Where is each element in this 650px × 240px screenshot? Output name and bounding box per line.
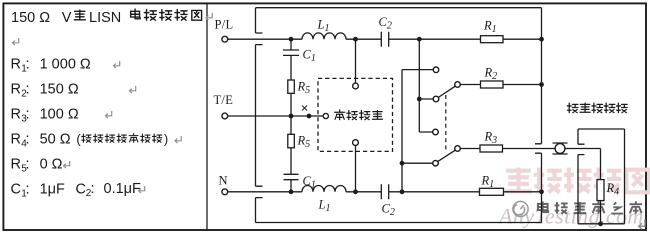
wire receiver input down to R4	[600, 149, 602, 180]
resistor R5 (top)	[288, 80, 310, 97]
EUT left terminal	[323, 113, 328, 118]
capacitor C1 (top)	[283, 48, 316, 65]
resistor R4	[597, 180, 619, 201]
svg-text:C1: C1	[303, 48, 316, 65]
inductor L1 (top)	[302, 17, 346, 39]
svg-text:R2: R2	[484, 66, 498, 83]
capacitor C2 (bottom)	[381, 184, 395, 218]
disconnect mark x on T/E link	[302, 106, 307, 111]
switch contact N lower	[433, 160, 439, 166]
EUT top terminal	[353, 83, 359, 89]
wire EUT bottom dropper	[355, 145, 357, 192]
word-wrap return mark bottom right	[639, 219, 645, 229]
wire connector into receiver	[565, 148, 600, 150]
svg-text:L1: L1	[317, 17, 330, 34]
measurement receiver label (测量接收机)	[567, 103, 627, 112]
wire R2 to enclosure wall	[503, 84, 542, 86]
switch blade lower	[438, 150, 456, 162]
wire R1 to enclosure wall	[503, 38, 542, 40]
switch pole lower	[455, 146, 461, 152]
switch contact P/L upper	[433, 96, 439, 102]
svg-text:P/L: P/L	[215, 18, 234, 32]
resistor R3	[480, 130, 503, 153]
wire R1 bottom to enclosure wall	[504, 191, 542, 193]
wire N switch riser	[402, 70, 433, 192]
wire R5 to C1 (bottom)	[290, 148, 292, 175]
node R2 at enclosure wall	[539, 82, 544, 87]
node on P/L rail at C1 chain	[289, 37, 294, 42]
node on P/L dropper	[417, 97, 422, 102]
wire C1 to N rail	[290, 180, 292, 192]
wire N rail left	[228, 191, 303, 193]
wire R5 chain below T/E	[290, 116, 292, 134]
wire N rail to R1 (bottom)	[389, 191, 480, 193]
legend panel divider	[206, 4, 208, 230]
watermark gray characters (电磁兼容之家)	[538, 201, 642, 213]
svg-text:R5: R5	[297, 134, 311, 151]
coax connector flanges	[553, 143, 568, 154]
svg-text:R2:150 Ω: R2:150 Ω	[11, 81, 79, 99]
wire P/L rail left	[228, 38, 303, 40]
wire EUT top dropper	[355, 39, 357, 83]
wire R3 through bushing to coax connector	[503, 148, 555, 150]
svg-text:C1:1μFC2:0.1μF: C1:1μFC2:0.1μF	[11, 181, 142, 199]
svg-text:R3:100 Ω: R3:100 Ω	[11, 106, 79, 124]
wire R4 to receiver chassis	[600, 201, 602, 224]
capacitor C1 (bottom)	[284, 174, 316, 191]
switch contact N upper	[433, 67, 439, 73]
svg-text:C2: C2	[379, 15, 392, 32]
LISN enclosure right wall with bushing gap at R3 feed-through	[535, 8, 542, 223]
svg-text:R5: R5	[297, 80, 311, 97]
wire P/L rail to R1	[389, 38, 481, 40]
LISN enclosure top wall	[256, 7, 542, 9]
watermark pink characters (嘉峪检测网)	[505, 168, 649, 193]
resistor R5 (bottom)	[288, 134, 310, 151]
svg-text:R3: R3	[484, 130, 498, 147]
wire pole to R2	[460, 84, 480, 86]
svg-text:L1: L1	[318, 198, 331, 215]
paragraph return marks	[206, 13, 212, 20]
node R4 at receiver chassis	[598, 221, 603, 226]
watermark logo circle	[513, 201, 528, 216]
resistor R1 (bottom)	[480, 174, 504, 196]
wire P/L switch dropper	[419, 39, 433, 132]
EUT dashed box	[318, 78, 393, 151]
coax connector circle	[555, 144, 565, 154]
wire P/L rail to C2	[346, 38, 381, 40]
svg-text:T/E: T/E	[214, 93, 234, 107]
EUT bottom terminal	[353, 140, 359, 146]
node on P/L rail at EUT dropper	[353, 37, 358, 42]
node on P/L rail at switch dropper	[417, 37, 422, 42]
svg-text:R1: R1	[481, 174, 495, 191]
node on N rail at switch riser	[400, 189, 405, 194]
wire T/E rail	[228, 115, 324, 117]
wire C1 to R5 (top)	[290, 55, 292, 80]
svg-text:R1: R1	[483, 19, 497, 36]
inductor L1 (bottom)	[302, 186, 346, 215]
svg-text:150 Ω: 150 Ω	[11, 10, 50, 26]
svg-text:N: N	[219, 174, 228, 188]
terminal N	[219, 174, 228, 195]
LISN enclosure left wall with bushing gaps at P/L and N feed-throughs	[256, 8, 263, 223]
node T/E link	[307, 114, 312, 119]
node R1 bottom at enclosure wall	[539, 189, 544, 194]
terminal P/L	[215, 18, 234, 42]
switch blade upper	[438, 86, 455, 97]
wire C1 chain from P/L rail	[290, 39, 292, 50]
resistor R1 (top)	[481, 19, 504, 43]
node on N rail at EUT dropper	[353, 189, 358, 194]
svg-text:V: V	[62, 10, 72, 26]
receiver box walls with bushing gap	[578, 129, 625, 224]
LISN enclosure bottom wall	[256, 222, 542, 224]
node on N rail at C1 chain	[289, 189, 294, 194]
svg-text:C2: C2	[382, 202, 395, 219]
capacitor C2 (top)	[379, 15, 392, 47]
svg-text:R5:0 Ω: R5:0 Ω	[11, 156, 63, 174]
wire R5 to T/E rail	[290, 93, 292, 116]
node R1 at enclosure wall	[539, 37, 544, 42]
switch pole upper	[455, 82, 461, 88]
svg-text:R1:1 000 Ω: R1:1 000 Ω	[11, 56, 91, 74]
wire pole to R3	[460, 148, 480, 150]
switch contact P/L lower	[433, 129, 439, 135]
wire N rail to C2	[346, 191, 381, 193]
switch gang dashed link	[445, 95, 447, 150]
node T/E at C1-R5 chain	[289, 114, 294, 119]
legend R4 note (receiver input impedance)	[82, 134, 162, 143]
node on N riser	[400, 161, 405, 166]
resistor R2	[481, 66, 504, 89]
EUT label (受试设备)	[335, 110, 383, 120]
terminal T/E	[214, 93, 234, 119]
svg-text:LISN: LISN	[89, 10, 121, 26]
